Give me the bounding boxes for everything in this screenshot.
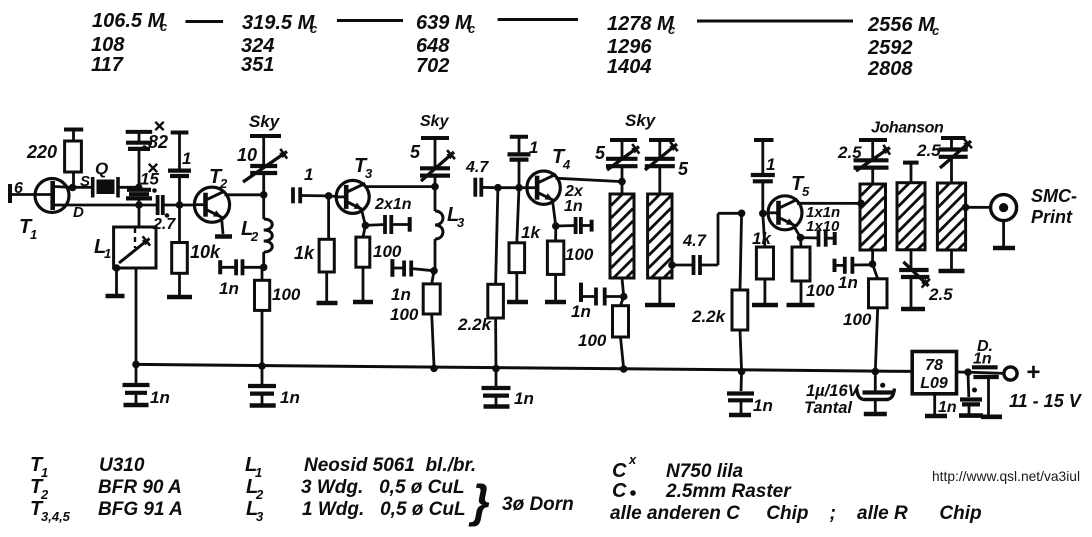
resistor 100 at L3 <box>423 271 440 366</box>
wire N5 to T4 base <box>519 186 528 189</box>
label SMC-Print <box>1031 186 1077 227</box>
label 15 with x mark and dot <box>140 164 159 193</box>
label 1n bus 1 <box>150 388 170 407</box>
series capacitor 2.7 <box>158 195 180 215</box>
label 5 right (stage 4) <box>678 159 689 179</box>
svg-text:3 Wdg. 0,5 ø CuL: 3 Wdg. 0,5 ø CuL <box>301 477 465 498</box>
parts list alle anderen <box>610 503 982 524</box>
label 100 at L3 <box>390 305 419 324</box>
svg-text:1: 1 <box>30 227 37 242</box>
svg-text:U310: U310 <box>99 455 145 476</box>
svg-text:C: C <box>612 460 627 482</box>
wire N7 to T5 base <box>763 212 768 215</box>
svg-text:Sky: Sky <box>420 113 450 130</box>
label 2.2k at T5 <box>691 307 727 326</box>
svg-text:351: 351 <box>241 54 274 76</box>
SMC-Print connector <box>991 195 1017 248</box>
svg-text:100: 100 <box>565 245 594 264</box>
transistor T3 (BFG 91 A) <box>335 180 370 213</box>
capacitor 2x1n at T4 emitter <box>556 217 592 234</box>
ground bus wire <box>136 364 912 371</box>
wire N2 to T3 <box>329 194 337 197</box>
regulator 78L09 <box>912 352 956 394</box>
label Sky (stage 2) <box>249 112 281 131</box>
feedthrough capacitor 1n at bus x741 <box>727 372 754 416</box>
svg-text:220: 220 <box>26 142 57 162</box>
label 3 Dorn <box>502 494 574 515</box>
label 1 (T2-T3) <box>304 165 313 184</box>
label 1n bus 2 <box>280 388 300 407</box>
wire T4 collector line <box>556 178 623 181</box>
svg-text:1 Wdg. 0,5 ø CuL: 1 Wdg. 0,5 ø CuL <box>302 499 466 520</box>
ground of 78L09 <box>925 394 947 416</box>
bus node at 2.2k stage 5 <box>738 368 746 376</box>
svg-text:N750 lila: N750 lila <box>666 461 744 482</box>
svg-text:1n: 1n <box>219 279 239 298</box>
parts list T2 = BFR 90 A <box>30 476 182 502</box>
svg-text:5: 5 <box>410 142 421 162</box>
svg-text:1k: 1k <box>752 229 772 248</box>
svg-text:BFG 91 A: BFG 91 A <box>98 499 183 520</box>
svg-text:1x10: 1x10 <box>806 218 840 235</box>
stripline resonator 2 (hatched) <box>648 194 672 278</box>
svg-text:78: 78 <box>925 357 943 374</box>
wire T3 emitter lead <box>362 210 366 226</box>
svg-text:C: C <box>612 480 627 502</box>
series capacitor 4.7 (stage 4-5) <box>694 255 719 275</box>
resistor 10k <box>172 205 188 296</box>
label 100 at L2 <box>272 285 301 304</box>
feedthrough capacitor 1n at bus x496 <box>482 369 511 407</box>
wire T5 collector line <box>797 202 860 205</box>
resistor 1k at T5 <box>756 213 773 303</box>
capacitor 2x1n at T3 emitter <box>365 215 409 234</box>
svg-text:1278 M: 1278 M <box>607 13 675 35</box>
resistor 2.2k (T4 base) <box>488 188 504 369</box>
svg-text:1404: 1404 <box>607 56 652 78</box>
label 4.7 (stage 3-4) <box>465 159 489 176</box>
parts list T3,4,5 = BFG 91 A <box>30 498 183 524</box>
capacitor 1n at stripline 1 <box>581 283 624 306</box>
svg-text:2.5: 2.5 <box>837 143 862 162</box>
label 2x1n at T3 <box>374 196 412 213</box>
transistor T4 (BFG 91 A) <box>526 171 561 204</box>
svg-text:1k: 1k <box>294 243 315 263</box>
node T5 emitter <box>797 234 805 242</box>
svg-text:c: c <box>310 21 318 36</box>
node N5 (C1 / R1k / T4 base) <box>515 184 523 192</box>
svg-text:L09: L09 <box>920 375 948 392</box>
svg-text:+: + <box>1026 359 1040 386</box>
label 1 (first stage cap) <box>182 149 191 168</box>
svg-text:1296: 1296 <box>607 36 652 58</box>
svg-text:100: 100 <box>373 242 402 261</box>
node T3 emitter <box>362 222 370 230</box>
svg-text:2808: 2808 <box>867 58 913 80</box>
node Sky-10 / L2 / T2 collector <box>260 191 268 199</box>
capacitor C 1 (stage 5) <box>751 140 775 213</box>
feedthrough capacitor D. 1n <box>968 367 1004 417</box>
svg-text:100: 100 <box>390 305 419 324</box>
resistor 100 at T5 <box>792 238 810 303</box>
svg-text:SMC-: SMC- <box>1031 186 1077 206</box>
svg-text:5: 5 <box>802 184 810 199</box>
label 100 at T5 <box>806 281 835 300</box>
trimmer capacitor Sky 5 (stage 3) <box>420 138 455 187</box>
svg-text:2.2k: 2.2k <box>691 307 727 326</box>
stripline resonator 5 (hatched) <box>937 183 965 250</box>
ground of 10k <box>167 295 192 300</box>
ground of stripline 2 <box>645 278 675 305</box>
svg-text:BFR 90 A: BFR 90 A <box>98 477 182 498</box>
label 2.5 C <box>928 285 953 304</box>
label 1n bus 4 <box>753 396 773 415</box>
trimmer capacitor Johanson 2.5 C (below stripline 4) <box>899 250 930 309</box>
svg-text:1: 1 <box>304 165 313 184</box>
svg-text:1n: 1n <box>753 396 773 415</box>
svg-text:c: c <box>932 23 940 38</box>
capacitor C 82 (N750) <box>126 132 152 188</box>
wire L1 to ground bus <box>135 268 138 364</box>
label T1 <box>19 216 37 242</box>
label 100 at T4 <box>565 245 594 264</box>
svg-text:Johanson: Johanson <box>871 120 944 137</box>
svg-text:1n: 1n <box>938 399 957 416</box>
transistor T2 (BFR 90 A) <box>194 187 230 222</box>
trimmer capacitor Johanson 2.5 B <box>939 138 972 183</box>
node stripline 3 bottom <box>869 250 877 268</box>
resistor 100 at L2 <box>255 267 270 366</box>
label T2 <box>209 166 228 191</box>
label Johanson <box>871 120 944 137</box>
table dash 1 <box>186 20 224 23</box>
wire riser to T5 base line <box>718 213 742 265</box>
svg-text:106.5 M: 106.5 M <box>92 10 166 32</box>
label 1 (stage 5) <box>766 155 775 174</box>
node C15 to main line <box>135 201 143 209</box>
svg-text:2.2k: 2.2k <box>457 315 493 334</box>
svg-text:319.5 M: 319.5 M <box>242 12 316 34</box>
parts list L2 = 3 Wdg <box>246 476 465 502</box>
parts list L3 = 1 Wdg <box>246 498 466 524</box>
svg-text:2.5: 2.5 <box>916 141 941 160</box>
parts list L1 = Neosid 5061 <box>245 454 476 480</box>
capacitor 1n at L3 foot <box>392 259 434 277</box>
series capacitor 4.7 (stage 3-4) <box>475 178 498 197</box>
wire stripline 2 tap to C4.7 <box>672 264 694 267</box>
svg-text:100: 100 <box>272 285 301 304</box>
svg-text:100: 100 <box>578 331 607 350</box>
node source of T1 / R220 / crystal <box>69 184 77 192</box>
svg-text:2556 M: 2556 M <box>867 14 936 36</box>
resistor 100 at stripline 3 <box>869 264 888 372</box>
svg-text:D: D <box>73 204 84 221</box>
label 2.5 A <box>837 143 862 162</box>
URL text <box>932 469 1080 484</box>
bus node at stripline 1 resistor <box>620 365 628 373</box>
label 2.5 B <box>916 141 941 160</box>
svg-text:2x1n: 2x1n <box>374 196 412 213</box>
supply T-bar above C 82 <box>126 130 153 134</box>
svg-text:5: 5 <box>678 159 689 179</box>
svg-text:648: 648 <box>416 35 450 57</box>
svg-text:c: c <box>468 21 476 36</box>
inductor L3 (1 Wdg) <box>435 187 443 271</box>
label 1n at stripline 1 <box>571 302 591 321</box>
svg-text:Q: Q <box>95 159 108 178</box>
svg-text:1n: 1n <box>571 302 591 321</box>
svg-text:2.5: 2.5 <box>928 285 953 304</box>
wire T1 drain line <box>70 204 158 207</box>
inductor L1 (Neosid 5061 shielded, tunable) <box>114 205 156 268</box>
ground of 100 at T5 <box>787 303 815 308</box>
capacitor 1n at stripline 3 <box>835 257 873 274</box>
label D pin of T1 <box>73 204 84 221</box>
supply T-bar above C 1 (stage 4) <box>510 135 528 139</box>
svg-text:100: 100 <box>843 310 872 329</box>
feedthrough capacitor 1n at bus x262 <box>248 366 276 406</box>
bus node at L2 <box>258 362 266 370</box>
svg-text:1n: 1n <box>564 198 583 215</box>
bus node at L1 <box>132 361 140 369</box>
ground of stripline 5 <box>939 250 965 271</box>
svg-text:5: 5 <box>595 143 606 163</box>
svg-text:c: c <box>668 22 676 37</box>
label 5 (stage 3) <box>410 142 421 162</box>
label 1x1n <box>806 204 840 221</box>
label 10k <box>190 242 221 262</box>
label 1n at feedthrough <box>973 351 992 368</box>
node stripline 1 bottom <box>620 278 628 300</box>
resistor 100 at stripline 1 <box>613 297 629 370</box>
node stripline 3 left tap <box>857 200 865 208</box>
wire N1 to T2 base <box>180 204 195 207</box>
wire T3 collector line <box>365 185 436 188</box>
capacitor C 1 (stage 4) <box>508 137 531 188</box>
node N2 (C1 / R1k / T3 base) <box>325 192 333 200</box>
frequency table column 5: 2556/2592/2808 Mc <box>867 14 940 80</box>
stripline resonator 3 (hatched) <box>860 184 886 250</box>
wire T2 collector to Sky node <box>225 193 264 196</box>
label 1k at T4 <box>521 223 541 242</box>
trimmer capacitor Sky 5 B (stage 4) <box>645 140 678 194</box>
transistor T1 (U310 JFET) <box>35 179 73 213</box>
node L2 / 1n / 100 <box>260 264 268 272</box>
supply T-bar above C 1 (stage 5) <box>754 138 774 142</box>
node L3 / 1n / 100 <box>430 267 438 275</box>
label 4.7 (stage 4-5) <box>682 232 707 250</box>
label S pin of T1 <box>80 173 90 190</box>
label 1n at stripline 3 <box>838 273 858 292</box>
svg-text:1: 1 <box>766 155 775 174</box>
resistor 1k at T3 <box>319 196 334 301</box>
svg-text:10k: 10k <box>190 242 221 262</box>
label T4 <box>552 146 571 172</box>
svg-text:2592: 2592 <box>867 37 913 59</box>
supply T-bar above R 220 <box>64 128 83 132</box>
label Q <box>95 159 108 178</box>
label 5 left (stage 4) <box>595 143 606 163</box>
ground of 1k at T4 <box>507 300 528 305</box>
svg-text:4.7: 4.7 <box>682 232 707 250</box>
label 100 at stripline 1 <box>578 331 607 350</box>
label 1u/16V <box>806 382 861 400</box>
svg-text:3: 3 <box>457 215 465 230</box>
resistor 100 at T3 <box>356 225 370 300</box>
ground of 100 at T3 <box>353 300 373 305</box>
ground of 100 at T4 <box>545 300 566 305</box>
wire T4 emitter lead <box>553 201 556 227</box>
label 1k at T5 <box>752 229 772 248</box>
svg-text:1µ/16V: 1µ/16V <box>806 382 861 400</box>
label 220 <box>26 142 57 162</box>
label 11-15V <box>1009 391 1083 411</box>
table dash 2 <box>337 19 403 22</box>
supply terminal + <box>1004 367 1017 380</box>
capacitor 1x1n/1x10 at T5 emitter <box>801 230 835 247</box>
wire input to T1 gate <box>10 193 36 196</box>
input terminal pin 6 <box>10 180 23 203</box>
svg-text:Sky: Sky <box>625 111 657 130</box>
svg-text:Print: Print <box>1031 207 1073 227</box>
svg-text:3: 3 <box>256 509 264 524</box>
series capacitor 1 (T2-T3) <box>293 187 329 203</box>
label 2.2k (T4 base) <box>457 315 493 334</box>
capacitor C 15 (N750) <box>126 190 152 205</box>
trimmer capacitor Johanson 2.5 A <box>854 140 891 184</box>
wire T5 emitter lead <box>794 226 801 238</box>
svg-text:82: 82 <box>148 132 168 152</box>
wire N4 to N5 <box>498 186 519 189</box>
svg-text:1k: 1k <box>521 223 541 242</box>
ground of L1 tap <box>106 268 125 296</box>
svg-text:2: 2 <box>219 176 228 191</box>
svg-text:2: 2 <box>250 229 259 244</box>
label 1n at L3 <box>391 285 411 304</box>
label T3 <box>354 155 373 181</box>
label L3 <box>447 204 465 230</box>
svg-text:Sky: Sky <box>249 112 281 131</box>
svg-text:1: 1 <box>104 246 111 261</box>
label 2x 1n at T4 <box>564 183 584 215</box>
bus node at 2.2k stage 4 <box>492 365 500 373</box>
label Sky (stage 3) <box>420 113 450 130</box>
svg-text:1n: 1n <box>280 388 300 407</box>
node 78L09 output <box>964 368 972 376</box>
bus node at Tantal <box>872 368 880 376</box>
svg-text:639 M: 639 M <box>416 12 473 34</box>
node S2 crystal/C82/C15 <box>135 184 143 192</box>
svg-text:1n: 1n <box>973 351 992 368</box>
label L2 <box>241 218 259 244</box>
label 100 at T3 <box>373 242 402 261</box>
transistor T5 (BFG 91 A) <box>767 196 802 230</box>
node stripline 2 side tap <box>668 261 676 269</box>
ground of 1k at T3 <box>317 301 338 306</box>
label 1x10 <box>806 218 840 235</box>
label 10 <box>237 145 257 165</box>
label 1k at T3 <box>294 243 315 263</box>
svg-text:2.7: 2.7 <box>152 216 176 233</box>
parts list C* = N750 lila <box>612 452 744 482</box>
svg-text:3,4,5: 3,4,5 <box>41 509 71 524</box>
svg-text:4: 4 <box>562 157 571 172</box>
feedthrough capacitor 1n at bus x136 <box>123 364 150 405</box>
supply T-bar above first C 1 <box>171 131 189 135</box>
trimmer capacitor Sky 5 A (stage 4) <box>606 140 639 182</box>
frequency table column 3: 639/648/702 Mc <box>416 12 476 77</box>
frequency table column 2: 319.5/324/351 Mc <box>241 12 318 76</box>
node N7 (C1 / R1k / T5 base) <box>759 210 767 218</box>
wire stripline 5 to SMC <box>966 206 991 209</box>
label 82 with x mark and dot <box>142 122 168 152</box>
wire node to crystal <box>73 186 93 189</box>
svg-text:Tantal: Tantal <box>804 399 852 417</box>
svg-text:11 - 15 V: 11 - 15 V <box>1009 391 1083 411</box>
svg-text:2.5mm Raster: 2.5mm Raster <box>665 481 792 502</box>
svg-text:3ø Dorn: 3ø Dorn <box>502 494 574 515</box>
svg-text:1n: 1n <box>150 388 170 407</box>
wire 78L09 output <box>957 371 969 374</box>
node N1 (C2.7 / C1 / R10k / T2 base) <box>176 201 184 209</box>
svg-text:3: 3 <box>365 166 373 181</box>
frequency table column 4: 1278/1296/1404 Mc <box>607 13 676 78</box>
T2 emitter ground <box>215 217 232 237</box>
node Sky-5 / L3 (639 Mc tank) <box>431 183 439 191</box>
capacitor 1n at L2 foot <box>220 259 264 275</box>
trimmer capacitor Sky 10 <box>243 136 287 195</box>
svg-text:x: x <box>628 452 637 467</box>
stripline resonator 4 (hatched) <box>897 163 925 250</box>
svg-text:1: 1 <box>182 149 191 168</box>
svg-text:1n: 1n <box>838 273 858 292</box>
crystal Q <box>93 177 136 198</box>
svg-text:108: 108 <box>91 34 125 56</box>
ground of 1k at T5 <box>752 303 778 308</box>
svg-text:1n: 1n <box>391 285 411 304</box>
stripline resonator 1 (hatched) <box>610 182 634 278</box>
svg-text:117: 117 <box>91 54 124 76</box>
label 1 (stage 4) <box>529 138 538 157</box>
bus node at L3 resistor <box>430 365 438 373</box>
capacitor 1n (2.5mm Raster) at output <box>959 372 983 415</box>
node stripline 1 top / Sky trimmer / T4 collector <box>618 178 626 186</box>
brace for L2/L3 <box>468 475 490 527</box>
svg-text:Neosid 5061 bl./br.: Neosid 5061 bl./br. <box>304 455 476 476</box>
label 100 at stripline 3 <box>843 310 872 329</box>
inductor L2 (3 Wdg) <box>264 195 273 267</box>
label T5 <box>791 173 810 199</box>
node L1 bottom-left tap <box>113 264 121 272</box>
resistor 1k at T4 <box>509 188 525 300</box>
parts list T1 = U310 <box>30 454 145 480</box>
label Sky (stage 4) <box>625 111 657 130</box>
svg-text:100: 100 <box>806 281 835 300</box>
svg-text:alle anderen C Chip ;: alle anderen C Chip ; alle R Chip <box>610 503 982 524</box>
label L1 <box>94 236 111 261</box>
label D. <box>977 338 993 355</box>
label Tantal <box>804 399 852 417</box>
node N4 (C4.7 / 2.2k) <box>494 184 502 192</box>
node T4 emitter <box>552 222 560 230</box>
svg-text:702: 702 <box>416 55 449 77</box>
svg-text:c: c <box>160 19 168 34</box>
svg-text:1n: 1n <box>514 389 534 408</box>
tantalum capacitor 1u/16V <box>857 372 895 415</box>
capacitor C 1 (first stage) <box>168 133 191 206</box>
label 1n at L2 <box>219 279 239 298</box>
node N6 (2.2k / T5 base line) <box>738 210 746 218</box>
